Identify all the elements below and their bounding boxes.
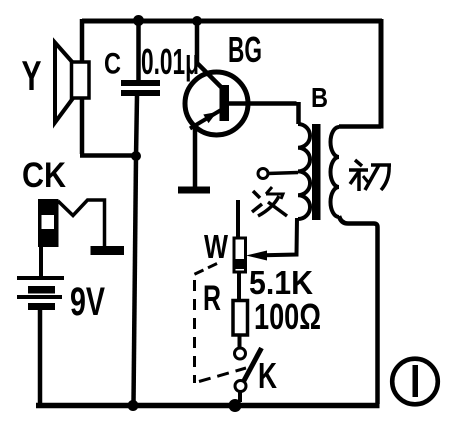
arrowhead wiper <box>246 251 267 261</box>
switch bottom contact <box>235 381 246 392</box>
wire bottom bus <box>36 403 380 409</box>
transistor BG circle <box>185 72 248 135</box>
capacitor C plates <box>121 80 160 86</box>
wire speaker bottom to junction <box>80 153 137 158</box>
svg-text:BG: BG <box>228 29 262 70</box>
wire secondary bottom lead <box>264 218 297 255</box>
transformer core <box>312 124 321 220</box>
terminal bar (jack) <box>91 246 125 255</box>
jack CK spring contact <box>58 200 105 246</box>
wire tap lead <box>268 173 299 174</box>
terminal bar (emitter) <box>178 187 210 194</box>
wire top bus <box>82 19 382 24</box>
svg-text:0.01μ: 0.01μ <box>141 41 199 82</box>
switch blade <box>244 348 262 382</box>
resistor R body <box>233 301 248 336</box>
jack CK body <box>38 199 59 247</box>
mechanical coupling dashed link <box>194 264 246 384</box>
switch top contact <box>235 348 246 359</box>
junction dot on top bus (capacitor) <box>133 15 144 26</box>
loudspeaker Y cone <box>55 43 74 123</box>
wire capacitor bottom lead <box>136 96 137 157</box>
wire primary bottom lead <box>339 216 378 404</box>
transformer secondary winding <box>298 124 310 219</box>
wire capacitor top lead <box>136 19 141 80</box>
wire right bus upper <box>379 19 384 129</box>
svg-text:B: B <box>311 82 328 113</box>
battery 9V plates <box>17 276 64 280</box>
loudspeaker Y driver rect <box>72 62 90 98</box>
wire middle vertical <box>134 157 137 403</box>
junction dot bottom (middle) <box>128 400 139 411</box>
svg-text:9V: 9V <box>70 280 105 324</box>
svg-text:Y: Y <box>22 52 42 99</box>
wire emitter down <box>193 127 198 187</box>
wire pot to resistor <box>237 272 241 301</box>
wire collector lead <box>197 20 223 89</box>
wire switch to bottom bus <box>238 391 242 403</box>
svg-text:100Ω: 100Ω <box>254 296 321 337</box>
transformer primary winding <box>331 127 340 217</box>
transistor emitter lead with arrow (PNP) <box>190 110 221 129</box>
tap terminal circle <box>258 169 268 179</box>
junction dot on top bus (collector) <box>192 16 202 26</box>
wire pot top stub <box>236 200 240 238</box>
wire speaker branch down <box>80 19 85 154</box>
wire battery to bottom bus <box>38 310 43 403</box>
wire jack to battery <box>39 247 43 276</box>
circled figure number 1 <box>392 359 438 405</box>
svg-text:K: K <box>258 355 277 396</box>
svg-text:CK: CK <box>22 156 66 195</box>
junction node dot (speaker/cap) <box>131 151 141 161</box>
svg-text:R: R <box>203 279 221 318</box>
transistor base bar <box>220 85 230 121</box>
wire resistor to switch <box>238 335 242 349</box>
label secondary (ci) <box>252 187 287 216</box>
svg-text:W: W <box>204 228 229 265</box>
svg-text:C: C <box>104 48 121 81</box>
wire primary top lead <box>339 124 381 129</box>
potentiometer W body <box>234 238 246 272</box>
wire base lead to transformer <box>229 102 299 124</box>
junction dot bottom (switch) <box>229 399 242 412</box>
label primary (chu) <box>349 160 391 191</box>
